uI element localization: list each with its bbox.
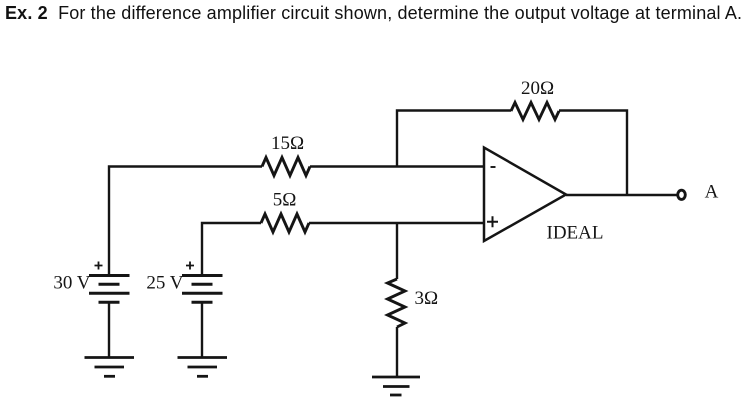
ground G3 (3ohm) — [372, 377, 420, 395]
battery V2 25V plates — [182, 276, 223, 303]
wire: output — [566, 194, 678, 196]
resistor R1 15ohm — [262, 158, 310, 176]
resistor R4 3ohm vertical — [388, 279, 406, 327]
op-amp minus sign — [491, 166, 496, 168]
op-amp U1 — [484, 148, 566, 242]
battery V1 30V plates — [89, 276, 130, 303]
ground G2 (25V) — [178, 358, 228, 377]
wire: 3ohm to ground — [396, 327, 398, 377]
battery V1 plus sign — [95, 262, 103, 270]
op-amp plus sign — [487, 216, 498, 227]
svg-text:A: A — [705, 182, 719, 203]
svg-text:30 V: 30 V — [53, 273, 90, 294]
svg-text:IDEAL: IDEAL — [547, 223, 604, 244]
svg-text:3Ω: 3Ω — [415, 288, 439, 309]
svg-text:25 V: 25 V — [146, 273, 183, 294]
wire: plus-input horizontal left segment — [202, 223, 261, 276]
terminal A circle — [678, 190, 686, 199]
battery V2 plus sign — [186, 262, 194, 270]
wire: 3ohm branch down — [396, 223, 398, 279]
svg-text:20Ω: 20Ω — [521, 78, 554, 99]
resistor R3 20ohm — [511, 103, 559, 120]
wire: plus-input to op-amp — [309, 222, 484, 224]
wire: minus-input to op-amp — [310, 165, 484, 167]
title text — [5, 3, 742, 24]
wire: battery V2 to ground — [201, 302, 203, 357]
svg-text:5Ω: 5Ω — [273, 190, 297, 211]
wire: battery V1 to ground — [108, 302, 110, 357]
ground G1 (30V) — [85, 358, 135, 377]
svg-text:15Ω: 15Ω — [271, 133, 304, 154]
wire: feedback right down to output — [559, 111, 627, 196]
resistor R2 5ohm — [261, 214, 309, 232]
wire: minus-input horizontal left segment — [109, 167, 262, 276]
wire: feedback left vertical — [397, 111, 511, 167]
